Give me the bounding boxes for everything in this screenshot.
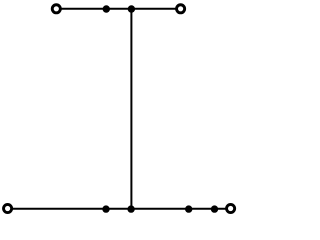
- terminal top-left: [52, 5, 60, 13]
- junction dot bottom B: [127, 205, 134, 212]
- terminal top-right: [177, 5, 185, 13]
- junction dot bottom D: [211, 205, 218, 212]
- junction dot top B: [128, 5, 135, 12]
- terminal bottom-right: [227, 204, 235, 212]
- junction dot bottom C: [185, 205, 192, 212]
- wire top rail: [56, 8, 180, 10]
- terminal bottom-left: [4, 204, 12, 212]
- junction dot top A: [103, 5, 110, 12]
- wire vertical jumper: [130, 9, 132, 209]
- wire bottom rail: [8, 208, 231, 210]
- junction dot bottom A: [102, 205, 109, 212]
